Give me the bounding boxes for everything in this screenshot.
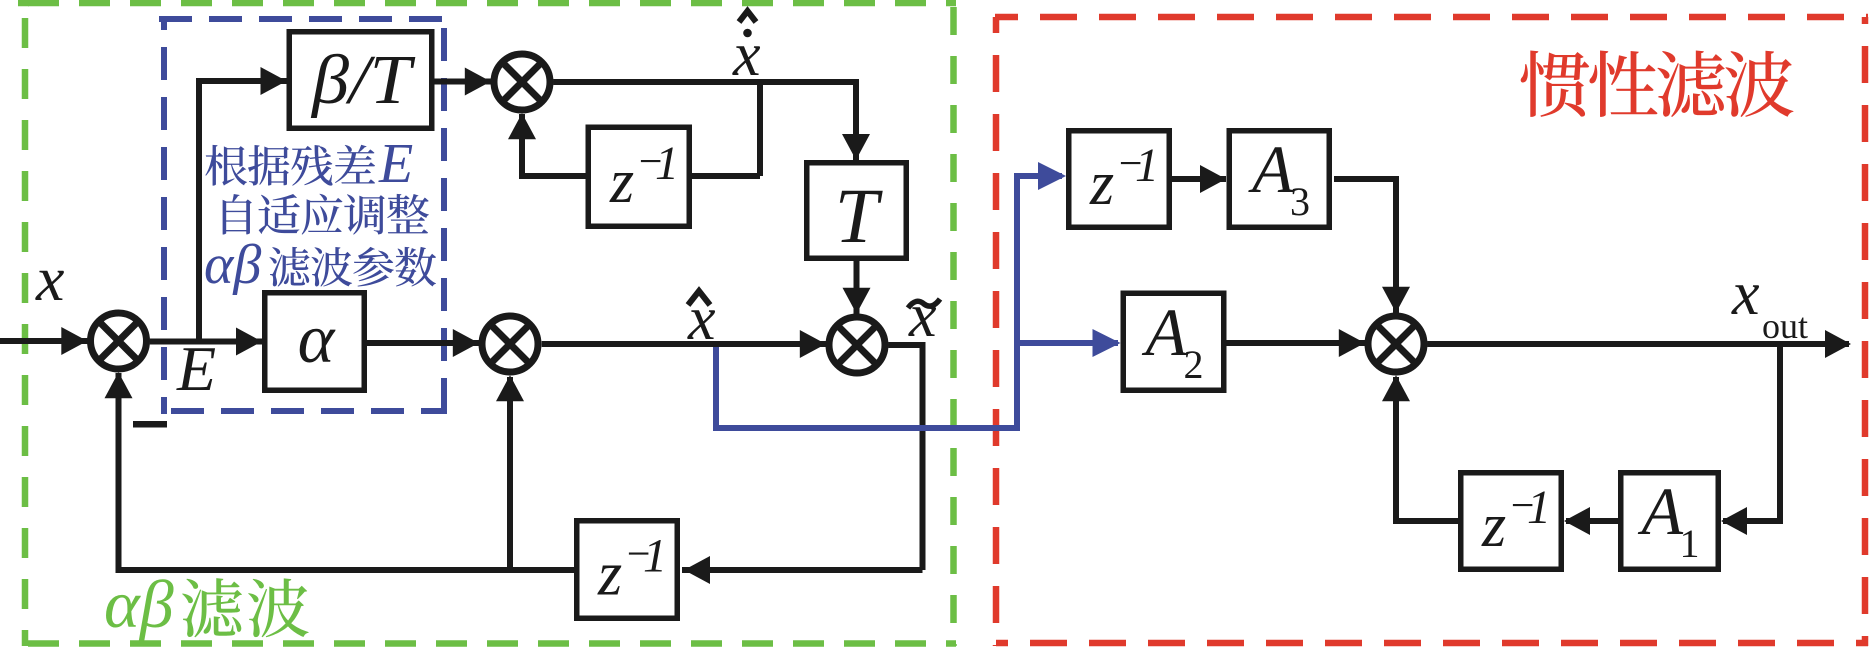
block beta/T bbox=[289, 32, 432, 129]
wire: A1 output into delay Z4 bbox=[1564, 507, 1618, 535]
wire: delay Z1 output up into M2 bbox=[508, 113, 586, 176]
svg-text:out: out bbox=[1762, 306, 1808, 346]
svg-text:x: x bbox=[1731, 260, 1760, 328]
label: green group title alpha-beta filter bbox=[104, 566, 309, 642]
frame: adaptive parameter adjust group boundary (blue dashed) bbox=[159, 17, 447, 414]
wire: delay Z2 output left along bottom and up into M1 bbox=[105, 372, 575, 570]
wire: blue branch into block A2 bbox=[1017, 329, 1121, 357]
svg-text:E: E bbox=[378, 133, 413, 195]
svg-text:1: 1 bbox=[1135, 139, 1159, 192]
svg-text:β/T: β/T bbox=[310, 42, 416, 119]
wire: alpha output into multiplier M3 bbox=[367, 329, 480, 357]
svg-text:z: z bbox=[597, 541, 622, 609]
svg-text:1: 1 bbox=[1527, 481, 1551, 534]
block Z2 (delay z^-1, bottom left) bbox=[577, 521, 678, 619]
label: blue annotation line 3 (alpha-beta lvbo canshu) bbox=[204, 234, 436, 296]
svg-text:1: 1 bbox=[655, 137, 679, 190]
svg-text:1: 1 bbox=[643, 530, 667, 583]
wire: M4 output corner down to feedback line bbox=[888, 345, 922, 570]
svg-text:A: A bbox=[1142, 294, 1188, 370]
label: minus sign at M1 feedback input bbox=[133, 421, 167, 428]
wire: top line tap down to delay Z1 input bbox=[757, 82, 763, 176]
svg-text:z: z bbox=[1481, 492, 1506, 560]
multiplier M5 (inertial filter summer) bbox=[1368, 316, 1424, 372]
wire: T output down into multiplier M4 bbox=[843, 261, 871, 315]
block alpha bbox=[265, 293, 365, 391]
svg-text:1: 1 bbox=[1680, 521, 1700, 566]
wire: delay Z1 right side to tap bbox=[692, 173, 760, 179]
wire: M5 output to x_out arrow bbox=[1427, 330, 1851, 358]
svg-text:3: 3 bbox=[1290, 179, 1310, 224]
block Z1 (delay z^-1, top left) bbox=[588, 127, 689, 226]
node label: x_out bbox=[1731, 260, 1808, 346]
svg-text:αβ: αβ bbox=[204, 234, 261, 296]
multiplier M4 (prediction summer) bbox=[829, 317, 885, 373]
block Z3 (delay z^-1, inertial) bbox=[1069, 131, 1170, 228]
label: blue annotation line 1 (genju cancha E) bbox=[205, 133, 413, 195]
wire: A3 output corner down into multiplier M5 bbox=[1334, 179, 1410, 314]
svg-text:T: T bbox=[835, 172, 883, 259]
multiplier M1 (input summer) bbox=[91, 313, 147, 369]
svg-text:z: z bbox=[1089, 150, 1114, 218]
svg-text:α: α bbox=[298, 301, 336, 378]
svg-text:A: A bbox=[1638, 473, 1684, 549]
wire: feedback into delay Z2 (right side) bbox=[682, 556, 923, 584]
label: blue annotation line 2 (zishiying tiaozheng) bbox=[223, 194, 429, 235]
svg-text:2: 2 bbox=[1184, 342, 1204, 387]
node label: x-hat (position estimate) bbox=[687, 285, 716, 353]
svg-text:z: z bbox=[609, 148, 634, 216]
wire: beta/T output into multiplier M2 bbox=[435, 68, 493, 96]
wire: delay Z3 output into block A3 bbox=[1172, 165, 1226, 193]
label: red group title inertial filter bbox=[1521, 50, 1794, 117]
node label: input x bbox=[35, 243, 64, 314]
wire: M1 output to node E and into block alpha bbox=[150, 328, 262, 356]
wire: M2 output along top to T block (corner down) bbox=[553, 82, 870, 160]
block A3 bbox=[1229, 131, 1329, 228]
wire: A2 output into multiplier M5 bbox=[1227, 329, 1367, 357]
wire: output tap down and left into A1 bbox=[1721, 344, 1780, 535]
multiplier M2 (velocity summer) bbox=[494, 54, 550, 110]
multiplier M3 (position summer) bbox=[482, 316, 538, 372]
frame: inertial filter group boundary (red dashed) bbox=[995, 17, 1868, 646]
wire: delay Z4 output corner up into M5 bbox=[1382, 375, 1458, 521]
wire: blue x-hat feed from M3 output down/right into inertial filter bbox=[716, 162, 1066, 428]
wire: node E tap up to block beta/T input bbox=[199, 67, 287, 342]
wire: M3 output to M4 (x-hat line) bbox=[542, 330, 827, 358]
node label: x-hat-dot (velocity estimate) bbox=[732, 11, 761, 89]
node label: residual E bbox=[176, 333, 216, 404]
block A1 bbox=[1621, 473, 1719, 570]
block A2 bbox=[1123, 293, 1224, 390]
svg-text:x: x bbox=[908, 282, 937, 350]
frame: alpha-beta filter group boundary (green dashed) bbox=[18, 3, 956, 646]
svg-text:A: A bbox=[1248, 131, 1294, 207]
block Z4 (delay z^-1, feedback) bbox=[1461, 473, 1562, 570]
svg-text:αβ: αβ bbox=[104, 566, 174, 642]
wire: input x into summer M1 bbox=[0, 327, 90, 355]
node label: x-tilde (prediction) bbox=[908, 282, 940, 350]
svg-text:E: E bbox=[176, 333, 216, 404]
block T (sampling period) bbox=[807, 163, 907, 259]
svg-text:x: x bbox=[35, 243, 64, 314]
wire: feedback tap up into M3 bbox=[496, 375, 524, 570]
